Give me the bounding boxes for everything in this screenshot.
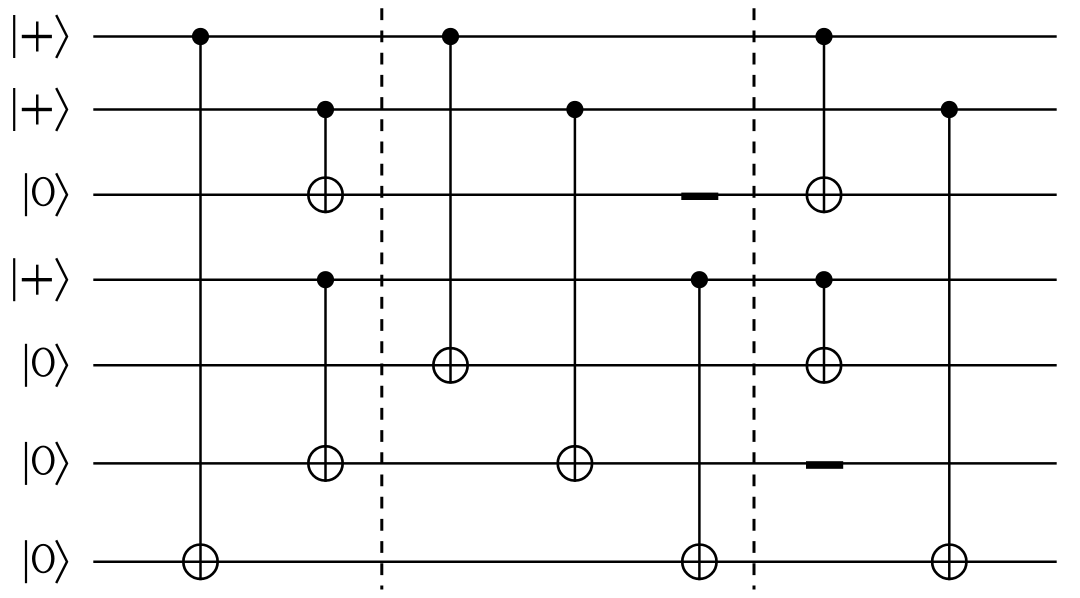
target XOR CX7 — [807, 178, 841, 212]
wire vertical CNOT CX3 control-to-target — [324, 280, 327, 482]
wire vertical CNOT CX8 control-to-target — [823, 280, 826, 384]
wire vertical CNOT CX1 control-to-target — [199, 37, 202, 581]
qubit label |0> (q7) — [25, 540, 67, 583]
control dot CX7 — [815, 28, 832, 45]
control dot CX1 — [192, 28, 209, 45]
control dot CX6 — [691, 271, 708, 288]
control dot CX2 — [317, 101, 334, 118]
qubit label |+> (q4) — [13, 258, 67, 301]
error bar Z on q3 — [681, 193, 718, 200]
target XOR CX9 — [932, 545, 966, 579]
wire q4 — [93, 278, 1056, 281]
target XOR CX8 — [807, 348, 841, 382]
wire q2 — [93, 108, 1056, 111]
wire vertical CNOT CX5 control-to-target — [574, 110, 577, 482]
control dot CX5 — [566, 101, 583, 118]
target XOR CX3 — [308, 446, 342, 480]
wire vertical CNOT CX4 control-to-target — [449, 37, 452, 384]
wire q1 — [93, 35, 1056, 38]
wire q6 — [93, 462, 1056, 465]
target XOR CX1 — [183, 545, 217, 579]
wire vertical CNOT CX9 control-to-target — [948, 110, 951, 581]
wire q5 — [93, 364, 1056, 367]
target XOR CX2 — [308, 178, 342, 212]
qubit label |0> (q5) — [25, 344, 67, 387]
error bar Z on q6 — [806, 461, 843, 469]
wire vertical CNOT CX2 control-to-target — [324, 110, 327, 214]
control dot CX3 — [317, 271, 334, 288]
qubit label |+> (q1) — [13, 15, 67, 58]
control dot CX8 — [815, 271, 832, 288]
control dot CX9 — [941, 101, 958, 118]
target XOR CX5 — [558, 446, 592, 480]
wire q3 — [93, 193, 1056, 196]
barrier dashed line 2 — [753, 8, 756, 589]
qubit label |0> (q3) — [25, 173, 67, 216]
qubit label |0> (q6) — [25, 442, 67, 485]
control dot CX4 — [442, 28, 459, 45]
wire vertical CNOT CX6 control-to-target — [698, 280, 701, 581]
wire q7 — [93, 560, 1056, 563]
target XOR CX4 — [433, 348, 467, 382]
wire vertical CNOT CX7 control-to-target — [823, 37, 826, 214]
target XOR CX6 — [682, 545, 716, 579]
barrier dashed line 1 — [380, 8, 383, 589]
qubit label |+> (q2) — [13, 88, 67, 131]
